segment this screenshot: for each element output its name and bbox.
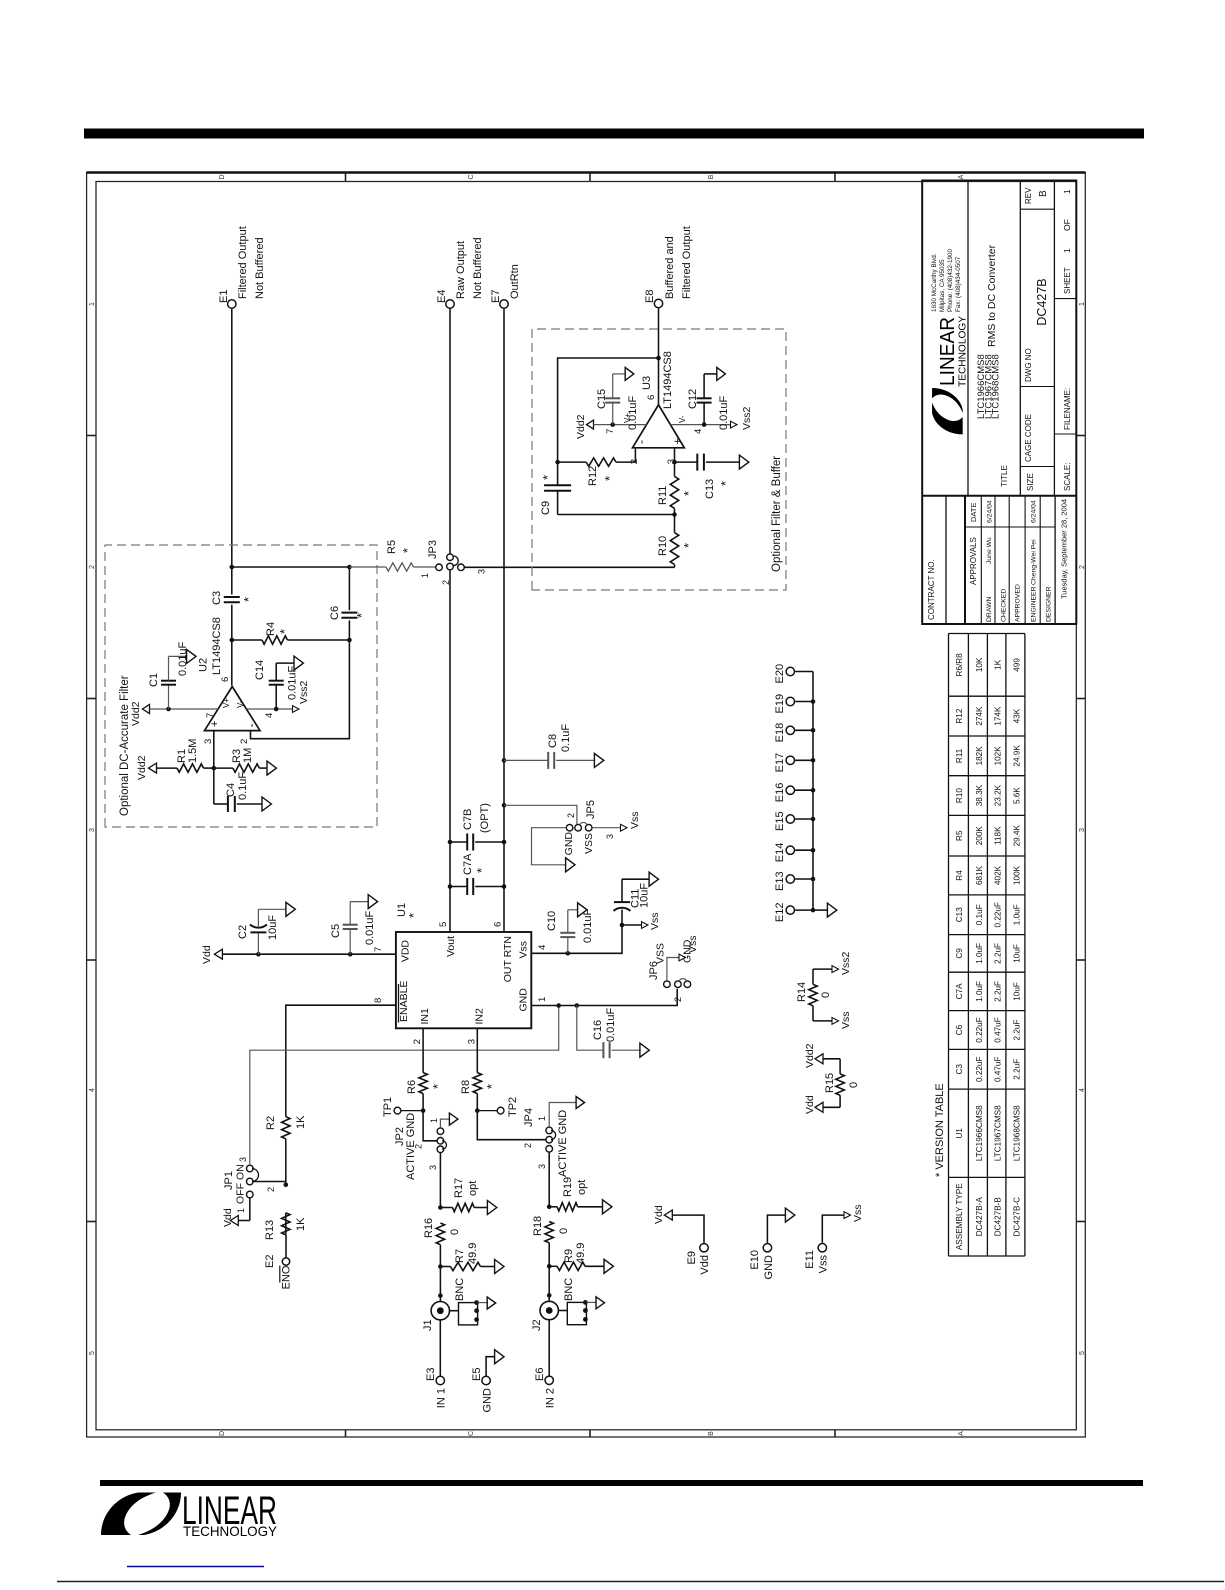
svg-text:Vdd: Vdd	[653, 1205, 665, 1224]
svg-text:V-: V-	[678, 415, 687, 423]
svg-text:*: *	[474, 868, 489, 873]
wire GND pin1 net	[531, 989, 677, 1008]
resistor R13 1K	[264, 1213, 307, 1240]
svg-text:D: D	[219, 1431, 226, 1436]
svg-text:C14: C14	[254, 660, 266, 680]
svg-text:R8: R8	[460, 1080, 472, 1094]
op-amp U2 LT1494CS8	[198, 617, 261, 730]
power Vss2 right of R14	[813, 951, 852, 975]
svg-text:R11: R11	[955, 748, 964, 763]
svg-text:A: A	[958, 1431, 965, 1436]
jumper JP5	[504, 800, 597, 855]
svg-text:U1: U1	[955, 1128, 964, 1139]
svg-text:+: +	[672, 438, 684, 444]
svg-text:R13: R13	[264, 1220, 276, 1240]
svg-text:*: *	[484, 1084, 499, 1089]
terminal E5 GND	[471, 1350, 504, 1413]
svg-text:1: 1	[1062, 248, 1072, 253]
svg-text:VSS: VSS	[655, 943, 667, 964]
svg-text:E1: E1	[218, 290, 230, 303]
wire ENABLE net	[284, 1005, 396, 1235]
resistor R18 0	[532, 1216, 570, 1243]
connector J1 BNC	[422, 1278, 479, 1331]
svg-text:(OPT): (OPT)	[479, 803, 491, 833]
svg-text:DC427B: DC427B	[1035, 278, 1049, 325]
svg-text:6: 6	[646, 395, 657, 400]
power Vss from JP6 pin1	[667, 935, 699, 980]
svg-text:Fax: (408)434-0507: Fax: (408)434-0507	[955, 256, 962, 312]
svg-text:2.2uF: 2.2uF	[994, 981, 1003, 1002]
IC U1 LTC1966 block	[373, 903, 548, 1044]
svg-text:Vss: Vss	[649, 912, 661, 930]
footer Linear Technology logo	[101, 1489, 278, 1539]
title block part numbers	[976, 244, 1002, 419]
svg-text:opt: opt	[576, 1180, 588, 1195]
svg-text:*: *	[430, 1084, 445, 1089]
resistor R8	[460, 1073, 499, 1094]
svg-text:4: 4	[89, 1088, 96, 1092]
svg-text:R10: R10	[657, 536, 669, 556]
svg-text:3: 3	[238, 1157, 248, 1162]
svg-text:E4: E4	[436, 290, 448, 303]
svg-text:TECHNOLOGY: TECHNOLOGY	[957, 316, 969, 387]
svg-text:LTC1966CMS8: LTC1966CMS8	[975, 1105, 984, 1161]
svg-text:0.01uF: 0.01uF	[582, 908, 594, 943]
svg-text:200K: 200K	[975, 826, 984, 846]
capacitor C10 0.01uF	[546, 908, 594, 953]
svg-text:1K: 1K	[295, 1115, 307, 1129]
svg-text:C13: C13	[704, 479, 716, 499]
svg-text:GND: GND	[518, 988, 530, 1012]
resistor R12	[555, 458, 635, 486]
svg-text:ENABLE: ENABLE	[398, 981, 410, 1022]
pin 4 V- of U2 with Vss2	[236, 680, 310, 718]
svg-text:C7B: C7B	[462, 809, 474, 830]
svg-text:R19: R19	[562, 1177, 574, 1197]
svg-text:Tuesday, September 28, 2004: Tuesday, September 28, 2004	[1060, 499, 1069, 599]
resistor R2 1K	[265, 1115, 307, 1139]
svg-text:R7: R7	[454, 1249, 466, 1263]
svg-text:0.01uF: 0.01uF	[605, 1007, 617, 1042]
svg-text:1.0uF: 1.0uF	[975, 981, 984, 1002]
ground for C11	[649, 872, 658, 886]
wire E4 to JP3	[449, 309, 451, 554]
svg-text:C8: C8	[547, 734, 559, 748]
svg-text:Vss: Vss	[840, 1011, 852, 1029]
svg-text:10uF: 10uF	[267, 915, 279, 940]
ground for JP5 pin1	[532, 828, 576, 872]
svg-text:*: *	[718, 481, 733, 486]
capacitor C1 0.01uF	[148, 641, 189, 711]
capacitor C12 0.01uF	[687, 374, 730, 430]
svg-text:RMS to DC Converter: RMS to DC Converter	[986, 244, 998, 347]
svg-text:2: 2	[566, 813, 576, 818]
wire Vss pin4 net	[531, 923, 624, 956]
capacitor C15 0.01uF	[596, 374, 639, 430]
svg-text:2.2uF: 2.2uF	[994, 943, 1003, 964]
svg-text:E14: E14	[774, 843, 786, 863]
svg-text:JP5: JP5	[585, 800, 597, 819]
ground for R7	[495, 1260, 504, 1274]
svg-text:GND: GND	[763, 1255, 775, 1280]
svg-text:ENO: ENO	[281, 1265, 293, 1289]
svg-text:ON: ON	[235, 1164, 247, 1180]
svg-text:*: *	[602, 476, 617, 481]
svg-text:GND: GND	[482, 1388, 494, 1413]
connector J2 BNC	[531, 1278, 588, 1331]
jumper JP3	[420, 540, 487, 585]
svg-text:C3: C3	[955, 1064, 964, 1075]
svg-text:VSS: VSS	[583, 833, 595, 854]
svg-text:1: 1	[1062, 189, 1072, 194]
svg-text:*: *	[406, 913, 421, 918]
svg-text:C5: C5	[330, 924, 342, 938]
svg-text:J2: J2	[531, 1319, 543, 1331]
svg-text:1.0uF: 1.0uF	[1012, 904, 1021, 925]
svg-text:LT1494CS8: LT1494CS8	[211, 617, 223, 675]
svg-text:R5: R5	[955, 830, 964, 841]
ground for C5	[368, 895, 377, 909]
svg-text:R18: R18	[532, 1216, 544, 1236]
wire U3 output to E8	[658, 308, 660, 405]
svg-text:-: -	[244, 724, 258, 728]
wire JP3 pin3 to U3 input	[464, 566, 674, 568]
svg-text:CAGE CODE: CAGE CODE	[1024, 414, 1033, 462]
svg-text:J1: J1	[422, 1319, 434, 1331]
svg-text:402K: 402K	[994, 865, 1003, 885]
svg-text:opt: opt	[467, 1181, 479, 1196]
ground for R19	[603, 1200, 612, 1214]
power Vdd2 for R1	[136, 755, 177, 780]
svg-text:1: 1	[420, 573, 430, 578]
svg-text:R15: R15	[824, 1073, 836, 1093]
svg-text:-: -	[634, 440, 648, 444]
svg-text:APPROVED: APPROVED	[1015, 584, 1022, 622]
svg-text:1M: 1M	[242, 748, 254, 763]
svg-text:B: B	[1038, 190, 1049, 197]
svg-text:*: *	[400, 548, 415, 553]
svg-text:DC427B-B: DC427B-B	[994, 1197, 1003, 1237]
svg-text:Filtered Output: Filtered Output	[681, 226, 693, 299]
power Vss left of R14	[813, 1011, 852, 1029]
svg-text:B: B	[708, 174, 715, 179]
capacitor C16 0.01uF	[577, 1006, 640, 1059]
svg-text:10K: 10K	[975, 657, 984, 672]
svg-text:SHEET: SHEET	[1063, 267, 1072, 294]
svg-text:R10: R10	[955, 788, 964, 803]
svg-text:0.47uF: 0.47uF	[994, 1017, 1003, 1043]
ground for C12	[717, 367, 726, 380]
ground for C13	[739, 455, 748, 469]
svg-text:5.6K: 5.6K	[1012, 787, 1021, 804]
svg-text:OUT RTN: OUT RTN	[502, 936, 514, 982]
svg-text:1: 1	[537, 1116, 547, 1121]
svg-text:ENGINEER: ENGINEER	[1031, 586, 1038, 622]
svg-text:0.01uF: 0.01uF	[627, 395, 639, 430]
svg-text:TP1: TP1	[382, 1097, 394, 1117]
resistor R19 opt	[549, 1177, 602, 1211]
svg-text:2: 2	[239, 739, 250, 744]
svg-text:4: 4	[693, 429, 704, 434]
svg-text:C2: C2	[237, 925, 249, 939]
svg-text:6: 6	[493, 922, 504, 927]
svg-text:R16: R16	[423, 1218, 435, 1238]
svg-text:2: 2	[523, 1143, 533, 1148]
svg-text:R4: R4	[955, 870, 964, 881]
svg-text:JP1: JP1	[223, 1171, 235, 1190]
ground for C8	[594, 753, 603, 767]
svg-text:1: 1	[429, 1118, 439, 1123]
svg-text:Vss: Vss	[852, 1204, 864, 1222]
svg-text:DC427B-C: DC427B-C	[1012, 1197, 1021, 1237]
svg-text:*: *	[540, 475, 555, 480]
svg-text:0.1uF: 0.1uF	[975, 904, 984, 925]
svg-text:Vdd: Vdd	[222, 1208, 234, 1227]
resistor R17 opt	[440, 1178, 487, 1212]
svg-text:CHECKED: CHECKED	[1001, 589, 1008, 622]
resistor R9 49.9	[549, 1243, 604, 1271]
svg-text:681K: 681K	[975, 865, 984, 885]
svg-text:2: 2	[673, 997, 683, 1002]
wire JP1 pin2 to enable	[253, 1181, 286, 1183]
ground for C1	[187, 649, 196, 663]
svg-text:*: *	[354, 613, 369, 618]
svg-text:DESIGNER: DESIGNER	[1046, 586, 1053, 622]
svg-text:IN 1: IN 1	[436, 1388, 448, 1408]
svg-text:Filtered Output: Filtered Output	[237, 226, 249, 299]
pin 7 V+ of U2 with Vdd2	[130, 698, 231, 726]
svg-text:10uF: 10uF	[1012, 944, 1021, 963]
svg-text:JP3: JP3	[427, 540, 439, 559]
svg-text:E5: E5	[471, 1368, 483, 1381]
test point TP1	[382, 1097, 423, 1117]
svg-text:R11: R11	[657, 486, 669, 505]
ground for C15	[625, 367, 634, 380]
jumper JP4 ACTIVE GND	[523, 1108, 569, 1177]
version table	[934, 634, 1025, 1257]
svg-text:LTC1968CMS8: LTC1968CMS8	[991, 354, 1002, 419]
resistor R10	[657, 533, 696, 568]
svg-text:Vdd2: Vdd2	[575, 414, 587, 439]
svg-text:3: 3	[1079, 828, 1086, 832]
svg-text:1.5M: 1.5M	[187, 739, 199, 763]
svg-text:E19: E19	[774, 694, 786, 714]
svg-text:R9: R9	[563, 1249, 575, 1263]
svg-text:1.0uF: 1.0uF	[975, 943, 984, 964]
terminal E3 IN1	[425, 1320, 448, 1408]
wire IN1 net	[421, 1028, 437, 1141]
svg-text:102K: 102K	[994, 746, 1003, 766]
ground for C16	[640, 1043, 649, 1057]
svg-text:1: 1	[236, 1208, 246, 1213]
terminal strip E12 to E20	[774, 664, 827, 922]
svg-text:JP4: JP4	[523, 1108, 535, 1127]
svg-text:BNC: BNC	[563, 1278, 575, 1301]
resistor R7 49.9	[440, 1243, 494, 1271]
capacitor C11 10uF	[614, 879, 651, 925]
title block	[922, 181, 1076, 625]
svg-text:38.3K: 38.3K	[975, 784, 984, 806]
svg-text:E6: E6	[534, 1368, 546, 1381]
resistor R6	[406, 1073, 445, 1094]
ground for R9	[604, 1259, 613, 1273]
svg-text:499: 499	[1012, 658, 1021, 672]
svg-text:4: 4	[1079, 1088, 1086, 1092]
svg-text:Vss: Vss	[629, 811, 641, 829]
svg-text:7: 7	[605, 429, 616, 434]
svg-text:V+: V+	[222, 698, 231, 708]
wire U3 feedback to output	[558, 356, 661, 462]
svg-text:R4: R4	[265, 622, 277, 636]
svg-text:TITLE: TITLE	[1000, 465, 1009, 487]
svg-text:Optional DC-Accurate Filter: Optional DC-Accurate Filter	[119, 675, 131, 816]
svg-text:D: D	[219, 174, 226, 179]
svg-text:LT1494CS8: LT1494CS8	[662, 351, 674, 409]
svg-text:0: 0	[558, 1228, 570, 1234]
svg-text:0.01uF: 0.01uF	[364, 910, 376, 945]
zone letters and numbers	[89, 174, 1086, 1436]
ground below C4	[262, 797, 271, 811]
svg-text:B: B	[708, 1431, 715, 1436]
svg-text:C6: C6	[329, 606, 341, 620]
svg-text:E10: E10	[749, 1250, 761, 1270]
capacitor C13	[675, 454, 740, 499]
svg-text:2: 2	[414, 1144, 424, 1149]
svg-text:E15: E15	[774, 811, 786, 831]
svg-text:0.47uF: 0.47uF	[994, 1057, 1003, 1083]
svg-text:2: 2	[89, 565, 96, 569]
wire JP2 pin3 to J1	[438, 1153, 443, 1301]
svg-text:0.22uF: 0.22uF	[975, 1057, 984, 1083]
svg-text:0: 0	[449, 1229, 461, 1235]
ground for C10	[578, 903, 587, 917]
svg-text:*: *	[277, 629, 292, 634]
svg-text:2: 2	[266, 1187, 276, 1192]
svg-text:BNC: BNC	[454, 1278, 466, 1301]
svg-text:IN1: IN1	[419, 1008, 431, 1025]
svg-text:0.01uF: 0.01uF	[287, 665, 299, 700]
capacitor C14 0.01uF	[254, 660, 299, 711]
svg-text:3: 3	[605, 834, 615, 839]
svg-text:E13: E13	[774, 871, 786, 891]
terminal E9 Vdd	[653, 1205, 711, 1274]
svg-text:R14: R14	[796, 982, 808, 1002]
test point TP2	[477, 1097, 519, 1117]
svg-text:OFF: OFF	[235, 1183, 247, 1204]
svg-text:ASSEMBLY TYPE: ASSEMBLY TYPE	[955, 1183, 964, 1250]
top header rule bar	[84, 129, 1144, 139]
svg-text:5: 5	[1079, 1351, 1086, 1355]
resistor R4	[232, 622, 350, 644]
svg-text:OutRtn: OutRtn	[509, 264, 521, 299]
ground for JP4 pin1	[549, 1097, 584, 1128]
svg-text:174K: 174K	[994, 706, 1003, 726]
power Vdd2 right of R15	[804, 1043, 840, 1068]
svg-text:SCALE:: SCALE:	[1063, 463, 1072, 491]
svg-text:GND: GND	[563, 832, 575, 856]
svg-text:*: *	[241, 597, 256, 602]
svg-text:IN 2: IN 2	[545, 1388, 557, 1408]
svg-text:Vdd: Vdd	[201, 945, 213, 964]
svg-text:100K: 100K	[1012, 865, 1021, 885]
terminal E2 ENO	[264, 1235, 293, 1289]
footer bottom bar	[100, 1480, 1143, 1486]
svg-text:118K: 118K	[994, 826, 1003, 845]
svg-text:5: 5	[438, 922, 449, 927]
svg-text:0.1uF: 0.1uF	[560, 724, 572, 752]
svg-text:A: A	[958, 174, 965, 179]
jumper JP6	[648, 939, 694, 1002]
svg-text:Not Buffered: Not Buffered	[472, 237, 484, 299]
svg-text:C7A: C7A	[462, 853, 474, 875]
terminal E7 OutRtn	[490, 264, 521, 308]
wire E1 net	[230, 309, 235, 686]
svg-text:+: +	[209, 721, 221, 727]
svg-text:Vss2: Vss2	[840, 951, 852, 975]
svg-text:Phone: (408)432-1900: Phone: (408)432-1900	[947, 248, 954, 312]
svg-text:2: 2	[412, 1039, 423, 1044]
svg-text:R17: R17	[453, 1178, 465, 1198]
svg-text:2.2uF: 2.2uF	[1012, 1020, 1021, 1041]
svg-text:C3: C3	[211, 591, 223, 605]
resistor R11	[657, 476, 696, 532]
svg-text:3: 3	[203, 739, 214, 744]
svg-text:C13: C13	[955, 907, 964, 922]
svg-text:LTC1968CMS8: LTC1968CMS8	[1012, 1105, 1021, 1161]
terminal E10 GND	[749, 1208, 795, 1279]
capacitor C7A	[450, 853, 504, 895]
power Vss from JP5 pin3	[592, 811, 641, 839]
jumper JP2 ACTIVE GND	[394, 1113, 446, 1180]
svg-text:FILENAME:: FILENAME:	[1063, 388, 1072, 430]
svg-text:1: 1	[1079, 302, 1086, 306]
svg-text:Raw Output: Raw Output	[455, 241, 467, 299]
terminal E8 Buffered and Filtered Output	[644, 226, 693, 307]
svg-text:Cheng-Wei Pei: Cheng-Wei Pei	[1031, 539, 1038, 585]
ground for J2 shield	[586, 1297, 604, 1309]
power Vdd left of R15	[804, 1095, 840, 1114]
svg-text:E9: E9	[686, 1251, 698, 1264]
power Vss arrow at JP6 node	[622, 912, 661, 930]
svg-text:C1: C1	[148, 673, 160, 687]
svg-text:E17: E17	[774, 753, 786, 773]
svg-text:DWG NO: DWG NO	[1024, 348, 1033, 382]
svg-text:E16: E16	[774, 783, 786, 803]
svg-text:June Wu: June Wu	[986, 537, 993, 564]
wire Vout net U1 pin5 to JP3	[448, 570, 453, 932]
svg-text:Vss: Vss	[818, 1255, 830, 1274]
svg-text:1K: 1K	[994, 659, 1003, 670]
svg-text:2: 2	[1079, 565, 1086, 569]
svg-text:Vss: Vss	[687, 935, 699, 953]
terminal E11 Vss	[804, 1204, 864, 1273]
svg-text:LTC1967CMS8: LTC1967CMS8	[994, 1105, 1003, 1161]
power Vdd rail to U1 pin7	[201, 945, 396, 964]
capacitor C9	[540, 462, 675, 515]
ground for J1 shield	[478, 1297, 496, 1309]
ground for R17	[487, 1201, 496, 1215]
svg-text:Buffered and: Buffered and	[664, 236, 676, 299]
svg-text:* VERSION TABLE: * VERSION TABLE	[934, 1083, 946, 1177]
capacitor C7B (OPT)	[450, 803, 504, 850]
resistor R3 1M	[214, 748, 259, 773]
sheet border frame outer	[87, 173, 1086, 1438]
svg-text:E2: E2	[264, 1255, 276, 1268]
svg-text:Optional Filter & Buffer: Optional Filter & Buffer	[771, 456, 783, 572]
svg-text:V-: V-	[236, 700, 245, 708]
svg-text:*: *	[681, 543, 696, 548]
svg-text:2.2uF: 2.2uF	[1012, 1059, 1021, 1080]
